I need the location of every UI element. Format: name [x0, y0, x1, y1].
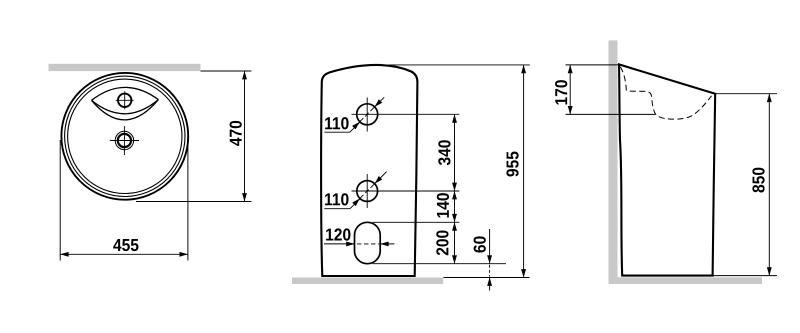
drain hole bold circle — [118, 134, 131, 147]
label 140 — [437, 193, 449, 217]
wall bar (top view) — [49, 64, 201, 71]
floor bar (front view) — [292, 278, 443, 285]
label 455 — [113, 239, 138, 251]
dimension 170 extension lines — [566, 65, 656, 115]
hole 1 (faucet hole, front) — [357, 104, 378, 125]
basin rim inner circle — [68, 79, 182, 193]
pedestal outline (front) — [321, 65, 417, 276]
side profile outline — [619, 64, 715, 275]
hole 2 diameter arrows — [375, 172, 387, 184]
hole 2 diameter dash-dot line — [360, 184, 375, 199]
label 340 — [438, 140, 450, 165]
dimension 455 line — [60, 253, 188, 255]
hole 1 vertical centerline — [366, 98, 368, 132]
dimension 470 line — [244, 71, 246, 202]
label 850 — [752, 168, 764, 193]
soap ledge lens lower arc — [92, 100, 159, 114]
basin outer circle — [61, 73, 188, 200]
dimension 455 extension lines — [60, 135, 188, 261]
faucet hole — [118, 94, 131, 107]
dimension 850 line — [768, 94, 770, 276]
dimension 140 line — [454, 191, 456, 222]
hole 1 diameter arrows — [375, 97, 385, 107]
oval dashed centerline — [350, 243, 390, 245]
label 60 — [474, 236, 486, 252]
dimension 60 line (outside arrows) — [489, 229, 491, 264]
label 110 — [325, 193, 348, 205]
oval bottom extension line — [373, 263, 507, 265]
label 120 — [326, 228, 350, 240]
floor extension line (front view) — [444, 277, 530, 279]
drain crosshair — [110, 126, 139, 155]
pedestal top extension line — [378, 64, 530, 66]
basin rim middle circle — [65, 76, 185, 196]
label 110 leader (hole 1) — [324, 122, 360, 132]
label 470 — [230, 121, 242, 146]
dimension 470 extension lines — [136, 71, 251, 202]
hidden bowl contour (dashed) — [620, 67, 711, 119]
soap ledge crescent arc — [92, 100, 159, 120]
oval top extension line — [373, 221, 460, 223]
hole 1 diameter dash-dot line — [360, 107, 375, 122]
faucet hole crosshair — [116, 91, 134, 109]
label 200 — [436, 230, 448, 255]
hole 2 vertical centerline — [366, 174, 368, 208]
hole 2 (faucet hole, front) — [357, 181, 378, 202]
oval width arrows (120) — [324, 243, 355, 245]
hole 1 horizontal centerline / extension — [352, 113, 460, 115]
floor bar (side view) — [609, 277, 763, 284]
siphon oval opening — [355, 222, 381, 263]
hole 2 horizontal centerline / extension — [352, 190, 460, 192]
soap ledge upper arc — [92, 87, 159, 100]
dimension 200 line — [454, 222, 456, 263]
wall bar (side view) — [609, 40, 618, 284]
dimension 955 line — [523, 65, 525, 278]
floor extension line (side view) — [713, 275, 777, 277]
label 955 — [506, 152, 518, 177]
dimension 850 extension line — [715, 93, 777, 95]
label 110 leader (hole 2) — [324, 199, 360, 209]
drain hole outer thin circle — [115, 131, 133, 149]
dimension 340 line — [454, 114, 456, 191]
label 110 — [325, 117, 348, 129]
dimension 170 line — [569, 65, 571, 115]
label 170 — [555, 80, 567, 104]
